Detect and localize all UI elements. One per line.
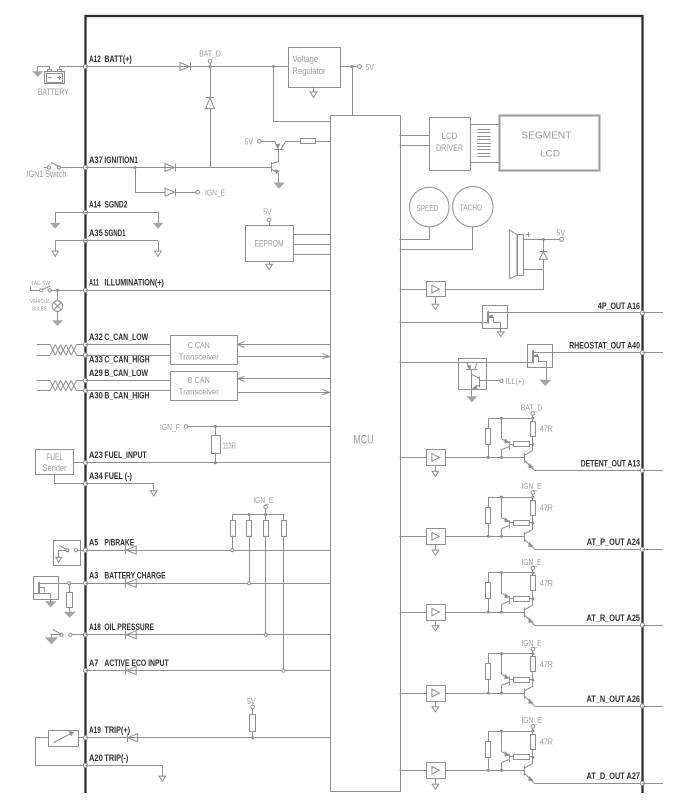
svg-text:A37: A37: [89, 155, 103, 165]
resistor R3 pull-up: [232, 515, 234, 521]
svg-text:A29: A29: [89, 368, 103, 378]
resistor (bias AT_N_OUT A26): [488, 654, 490, 664]
svg-text:IGN_E: IGN_E: [205, 189, 225, 198]
wire MCU to 4P FET: [400, 322, 483, 324]
speaker SP1: [510, 230, 517, 279]
ground (oil sw): [46, 638, 57, 644]
wire A33 to C CAN: [86, 355, 171, 357]
MOSFET Q4 (RHEOSTAT): [528, 345, 553, 368]
wire A20 to ground: [86, 766, 163, 777]
wire SGND2: [55, 212, 158, 214]
node IGN_E: [196, 190, 200, 194]
wire speaker+ to 5V: [523, 239, 560, 241]
pin A7 ACTIVE ECO INPUT: [83, 668, 87, 672]
wire 5V to EEPROM: [269, 222, 271, 225]
svg-text:A5: A5: [89, 538, 98, 548]
svg-text:BULBS: BULBS: [32, 306, 47, 312]
wire 4P_OUT: [507, 312, 643, 314]
svg-text:ILL(+): ILL(+): [505, 377, 524, 386]
junction rail 1: [248, 513, 251, 516]
svg-text:AT_N_OUT A26: AT_N_OUT A26: [587, 694, 641, 704]
junction A12/VR drop: [272, 65, 275, 68]
svg-text:A19: A19: [89, 725, 101, 735]
wire EEPROM bus 3: [293, 254, 330, 256]
wire alternator to pin: [58, 583, 86, 585]
resistor 47R (AT_P_OUT A24): [532, 497, 534, 500]
svg-text:RHEOSTAT_OUT A40: RHEOSTAT_OUT A40: [569, 341, 640, 351]
svg-text:ILLUMINATION(+): ILLUMINATION(+): [104, 278, 163, 288]
diode D2 BAT_D vertical: [210, 67, 212, 98]
wire A19 to MCU: [86, 737, 331, 739]
resistor (collector AT_D_OUT A27): [510, 756, 514, 758]
diode D9 trip: [128, 734, 138, 742]
pin A18 OIL PRESSURE: [83, 633, 87, 637]
svg-text:AT_D_OUT A27: AT_D_OUT A27: [587, 771, 641, 781]
wire EEPROM bus 1: [293, 234, 330, 236]
ground (Q4): [546, 368, 548, 381]
svg-text:IGN1 Switch: IGN1 Switch: [27, 169, 67, 179]
resistor (collector AT_P_OUT A24): [510, 522, 514, 524]
junction A3/resistor: [68, 582, 71, 585]
wire AT_P_OUT A24: [535, 549, 643, 551]
battery B1: [45, 72, 65, 84]
wire supply rail (AT_R_OUT A25): [488, 572, 533, 574]
transistor NPN (AT_P_OUT A24): [524, 532, 526, 542]
wire AT_N_OUT A26: [535, 706, 643, 708]
wire C CAN TX (arrow into MCU): [237, 356, 330, 358]
svg-text:IGNITION1: IGNITION1: [104, 155, 138, 165]
junction A3/R4: [248, 582, 251, 585]
diode D4 IGN_E: [165, 188, 175, 196]
wire speed to MCU: [400, 227, 430, 240]
wire 5V to MCU top: [352, 67, 354, 116]
transistor Q1 (PNP): [275, 141, 279, 148]
FUEL sender: [36, 450, 74, 475]
svg-text:BAT_D: BAT_D: [199, 50, 221, 59]
ground (Q3): [500, 328, 502, 332]
B CAN transceiver U5: [171, 372, 238, 401]
wire A29 to B CAN: [86, 380, 171, 382]
junction A19/R8: [251, 736, 254, 739]
twisted pair (C CAN): [50, 345, 55, 356]
resistor (bias DETENT_OUT A13): [488, 418, 490, 428]
svg-text:A7: A7: [89, 658, 98, 668]
wire AT_D_OUT A27: [535, 783, 643, 785]
svg-text:IGN_E: IGN_E: [253, 496, 273, 505]
transistor PNP (DETENT_OUT A13): [501, 418, 503, 439]
junction speaker diode: [542, 238, 545, 241]
wire switch to pin: [61, 167, 86, 169]
wire supply rail (AT_D_OUT A27): [488, 731, 533, 733]
junction A18/R5: [264, 633, 267, 636]
wire speaker- loop: [524, 269, 544, 271]
diode D6 battery charge: [126, 579, 136, 587]
ground (voltage regulator): [313, 87, 315, 93]
transistor PNP (AT_P_OUT A24): [501, 497, 503, 518]
ground (buffer AT_D_OUT A27): [435, 778, 437, 784]
wire A7 to MCU: [86, 670, 331, 672]
pin A32 C_CAN_LOW: [83, 343, 87, 347]
svg-text:B_CAN_HIGH: B_CAN_HIGH: [104, 390, 149, 400]
transistor pair (ILL driver): [459, 359, 487, 390]
wire MCU to buffer (DETENT_OUT A13): [400, 457, 427, 459]
wire supply rail (AT_N_OUT A26): [488, 653, 533, 655]
resistor R6 pull-up: [283, 515, 285, 521]
ground (R7): [65, 612, 74, 617]
svg-text:A35: A35: [89, 228, 103, 238]
svg-text:Transceiver: Transceiver: [179, 387, 219, 397]
svg-text:A14: A14: [89, 200, 101, 210]
buffer (AT_N_OUT A26): [427, 686, 446, 702]
buffer U7 (buzzer): [427, 282, 446, 297]
svg-text:BAT_D: BAT_D: [521, 403, 543, 412]
svg-text:TRIP(+): TRIP(+): [104, 725, 130, 735]
ground (Q2 emitter): [275, 183, 284, 188]
wire buffer to base (DETENT_OUT A13): [445, 457, 524, 459]
svg-text:IGN_E: IGN_E: [521, 716, 541, 725]
svg-text:Regulator: Regulator: [293, 66, 326, 76]
wire buffer to base (AT_N_OUT A26): [445, 693, 524, 695]
pin A5 P/BRAKE: [83, 548, 87, 552]
wire tacho to MCU: [400, 227, 473, 250]
resistor 47R (AT_D_OUT A27): [532, 731, 534, 734]
transistor NPN (AT_N_OUT A26): [524, 689, 526, 699]
wire resistor to MCU: [316, 141, 330, 143]
svg-text:5V: 5V: [263, 207, 272, 216]
wire A11 to MCU: [86, 290, 331, 292]
ground (buffer DETENT_OUT A13): [435, 465, 437, 471]
twisted pair (B CAN): [50, 381, 55, 391]
C CAN transceiver U4: [171, 336, 238, 365]
svg-text:VEHICLE: VEHICLE: [30, 299, 49, 305]
wire IGN_E stem: [265, 509, 267, 515]
svg-text:47R: 47R: [540, 737, 553, 746]
svg-text:TACHO: TACHO: [460, 203, 482, 212]
wire MCU to LCD driver 1: [400, 135, 430, 137]
svg-text:Sender: Sender: [43, 463, 67, 473]
pin A30 B_CAN_HIGH: [83, 389, 87, 393]
wire oil sw to pin: [72, 634, 86, 636]
ground (SGND2 left): [55, 212, 57, 223]
wire buffer to base (AT_R_OUT A25): [445, 612, 524, 614]
ground (SGND1 left): [55, 241, 57, 252]
svg-text:47R: 47R: [540, 660, 553, 669]
wire A12 line: [86, 66, 289, 68]
svg-text:IGN_F: IGN_F: [160, 423, 180, 432]
wire A37 line: [86, 167, 272, 169]
svg-text:A11: A11: [89, 278, 99, 288]
svg-text:IGN_E: IGN_E: [521, 639, 541, 648]
wire battery to A12: [38, 67, 50, 70]
pin A23 FUEL_INPUT: [83, 461, 87, 465]
wire B CAN TX (arrow into MCU): [237, 392, 330, 394]
svg-text:47R: 47R: [540, 425, 553, 434]
svg-text:A20: A20: [89, 753, 103, 763]
node ILL(+): [500, 379, 503, 382]
wire MCU to LCD driver 2: [400, 145, 430, 147]
svg-text:FUEL: FUEL: [46, 452, 63, 462]
svg-text:AT_P_OUT A24: AT_P_OUT A24: [587, 537, 640, 547]
IGN1 switch SW1: [44, 167, 47, 169]
ground (A20): [159, 776, 165, 781]
svg-text:AT_R_OUT A25: AT_R_OUT A25: [587, 613, 641, 623]
svg-text:IGN_E: IGN_E: [521, 558, 541, 567]
wire VR to 5V: [340, 66, 358, 68]
segment LCD display: [500, 116, 600, 171]
voltage regulator U2: [289, 48, 341, 88]
oil pressure switch SW4: [51, 634, 61, 636]
svg-text:47R: 47R: [540, 503, 553, 512]
ground (battery): [37, 67, 39, 72]
LCD driver U6: [430, 118, 471, 171]
resistor 47R (AT_N_OUT A26): [532, 654, 534, 657]
resistor (bias AT_R_OUT A25): [488, 573, 490, 583]
diode D10 (flyback): [543, 239, 545, 251]
svg-text:A3: A3: [89, 571, 98, 581]
resistor (collector DETENT_OUT A13): [510, 444, 514, 446]
ground (SGND1 right): [158, 241, 160, 252]
wire 5V to Q1: [261, 141, 275, 143]
transistor NPN (AT_D_OUT A27): [524, 766, 526, 776]
pin A34 FUEL (-): [83, 482, 87, 486]
transistor PNP (AT_N_OUT A26): [501, 654, 503, 675]
svg-text:A33: A33: [89, 355, 103, 365]
EEPROM U3: [246, 226, 294, 262]
wire A23 to MCU: [86, 462, 331, 464]
diode D7 oil pressure: [126, 631, 136, 639]
wire Q1 to resistor: [286, 141, 301, 143]
wire MCU to buffer (AT_P_OUT A24): [400, 536, 427, 538]
svg-text:SPEED: SPEED: [417, 204, 439, 213]
resistor 47R (DETENT_OUT A13): [532, 418, 534, 421]
resistor 47R (AT_R_OUT A25): [532, 573, 534, 576]
svg-text:5V: 5V: [366, 63, 375, 72]
wire A34 to ground: [86, 484, 154, 491]
wire B CAN RX (arrow into box): [237, 378, 330, 380]
svg-text:DRIVER: DRIVER: [436, 143, 463, 153]
svg-text:C CAN: C CAN: [188, 340, 210, 350]
ground (ILL driver): [471, 389, 473, 396]
resistor (bias AT_D_OUT A27): [488, 731, 490, 741]
resistor (collector AT_R_OUT A25): [510, 598, 514, 600]
LCD bus: [470, 124, 499, 126]
wire EEPROM bus 2: [293, 244, 330, 246]
ground (buzzer buffer): [435, 296, 437, 304]
tachometer gauge: [453, 187, 493, 227]
ground (bulb): [57, 311, 59, 320]
resistor R2 113R: [215, 427, 217, 436]
svg-text:LCD: LCD: [442, 131, 458, 141]
trip switch (reset): [49, 731, 79, 747]
wire IGN_E branch: [136, 168, 166, 193]
svg-text:C_CAN_LOW: C_CAN_LOW: [104, 332, 148, 342]
wire border connector frame (cluster boundary): [86, 16, 643, 793]
buffer (AT_P_OUT A24): [427, 529, 446, 545]
transistor NPN (AT_R_OUT A25): [524, 608, 526, 618]
parking brake switch SW3: [54, 541, 81, 566]
svg-text:Voltage: Voltage: [293, 54, 319, 64]
wire supply rail (DETENT_OUT A13): [488, 418, 533, 420]
node 5V (speaker): [560, 238, 564, 242]
diode D8 active eco: [126, 666, 136, 674]
junction A7/R6: [282, 669, 285, 672]
wire MCU to ILL driver: [400, 362, 459, 364]
pin A11 ILLUMINATION(+): [83, 288, 87, 292]
pin A14 SGND2: [83, 210, 87, 214]
pin A29 B_CAN_LOW: [83, 378, 87, 382]
junction 113R: [214, 425, 217, 428]
buffer (AT_D_OUT A27): [427, 763, 446, 779]
transistor NPN (DETENT_OUT A13): [524, 453, 526, 463]
ground (SGND2 right): [158, 212, 160, 223]
buffer (DETENT_OUT A13): [427, 450, 446, 466]
svg-text:BATT(+): BATT(+): [104, 54, 131, 64]
svg-text:C_CAN_HIGH: C_CAN_HIGH: [104, 355, 149, 365]
svg-text:SGND2: SGND2: [104, 200, 127, 210]
svg-text:A23: A23: [89, 450, 103, 460]
node BAT_D: [209, 65, 212, 68]
diode D1 on A12 line: [180, 63, 190, 71]
junction IGN branch: [134, 166, 137, 169]
wire C CAN RX (arrow into box): [237, 344, 330, 346]
wire A18 to MCU: [86, 634, 331, 636]
wire SGND1: [55, 240, 158, 242]
wire MCU to buffer (AT_N_OUT A26): [400, 693, 427, 695]
diode D3 ignition: [165, 164, 175, 172]
svg-text:A32: A32: [89, 332, 103, 342]
wire MCU to buffer (AT_R_OUT A25): [400, 612, 427, 614]
pin A35 SGND1: [83, 239, 87, 243]
wire pull-up rail: [232, 514, 284, 516]
MOSFET Q3 (4P_OUT): [483, 306, 508, 329]
ground (A34): [151, 491, 157, 496]
svg-text:SEGMENT: SEGMENT: [521, 130, 572, 142]
wire RHEOSTAT_OUT: [552, 352, 643, 354]
ground (EEPROM): [269, 261, 271, 264]
transistor PNP (AT_D_OUT A27): [501, 731, 503, 752]
wire sender to pin: [74, 462, 86, 464]
transistor Q2 (NPN): [271, 162, 273, 172]
pin A37 IGNITION1: [83, 165, 87, 169]
wire AT_R_OUT A25: [535, 625, 643, 627]
speedometer gauge: [410, 187, 450, 227]
ground (buffer AT_P_OUT A24): [435, 544, 437, 550]
transistor PNP (AT_R_OUT A25): [501, 573, 503, 594]
ground (buffer AT_N_OUT A26): [435, 701, 437, 707]
svg-text:DETENT_OUT A13: DETENT_OUT A13: [581, 458, 640, 468]
svg-text:MCU: MCU: [353, 435, 373, 447]
resistor R7 (charge): [69, 583, 71, 592]
svg-text:A18: A18: [89, 622, 101, 632]
wire A32 to C CAN: [86, 344, 171, 346]
wire ILL driver to Q4 gate: [487, 362, 528, 364]
svg-text:5V: 5V: [557, 228, 566, 237]
svg-text:EEPROM: EEPROM: [255, 238, 284, 248]
svg-text:A34: A34: [89, 471, 103, 481]
svg-text:TAIL SW: TAIL SW: [31, 281, 50, 287]
svg-text:5V: 5V: [245, 137, 254, 146]
svg-text:FUEL (-): FUEL (-): [104, 471, 132, 481]
pin A3 BATTERY CHARGE: [83, 581, 87, 585]
junction bulb: [56, 289, 59, 292]
svg-text:A30: A30: [89, 390, 103, 400]
junction 113R/A23: [214, 461, 217, 464]
pin A19 TRIP(+): [83, 736, 87, 740]
wire drop to MCU left: [274, 67, 331, 122]
svg-text:4P_OUT A16: 4P_OUT A16: [598, 301, 640, 311]
svg-text:P/BRAKE: P/BRAKE: [104, 538, 134, 548]
wire supply rail (AT_P_OUT A24): [488, 497, 533, 499]
pin A12 BATT(+): [83, 64, 87, 68]
wire IGN_F to MCU: [188, 426, 330, 428]
svg-text:OIL PRESSURE: OIL PRESSURE: [104, 622, 154, 632]
svg-text:BATTERY: BATTERY: [38, 87, 69, 97]
diode D5 P/BRAKE: [126, 546, 136, 554]
pin A20 TRIP(-): [83, 763, 87, 767]
wire sender gnd to A34: [55, 475, 86, 484]
svg-text:5V: 5V: [247, 697, 256, 706]
wire DETENT_OUT A13: [535, 470, 643, 472]
resistor (bias AT_P_OUT A24): [488, 497, 490, 507]
wire TAIL to pin: [51, 290, 85, 292]
svg-text:LCD: LCD: [540, 149, 561, 159]
svg-text:ACTIVE ECO INPUT: ACTIVE ECO INPUT: [104, 658, 169, 668]
ground (buffer AT_R_OUT A25): [435, 620, 437, 626]
MCU U1 box: [331, 116, 401, 792]
buffer (AT_R_OUT A25): [427, 605, 446, 621]
wire A3 to MCU: [86, 583, 331, 585]
TAIL SW switch SW2: [30, 287, 32, 291]
svg-text:B CAN: B CAN: [188, 375, 210, 385]
svg-text:IGN_E: IGN_E: [521, 482, 541, 491]
pin A33 C_CAN_HIGH: [83, 353, 87, 357]
resistor R5 pull-up: [265, 515, 267, 521]
svg-text:SGND1: SGND1: [104, 228, 125, 238]
svg-text:FUEL_INPUT: FUEL_INPUT: [104, 450, 147, 460]
resistor (collector AT_N_OUT A26): [510, 679, 514, 681]
resistor R8 (trip pull-up): [252, 709, 254, 715]
svg-text:A12: A12: [89, 54, 101, 64]
svg-text:B_CAN_LOW: B_CAN_LOW: [104, 368, 148, 378]
wire Q1 collector to Q2: [278, 149, 280, 161]
node 5V main: [351, 65, 354, 68]
svg-text:113R: 113R: [223, 442, 237, 451]
wire A30 to B CAN: [86, 390, 171, 392]
wire MCU to buffer (AT_D_OUT A27): [400, 770, 427, 772]
junction rail 2: [264, 513, 267, 516]
resistor R1 (base): [301, 139, 316, 144]
svg-text:47R: 47R: [540, 579, 553, 588]
wire MCU to buzzer buffer: [400, 289, 427, 291]
wire buffer to base (AT_P_OUT A24): [445, 536, 524, 538]
wire buffer to base (AT_D_OUT A27): [445, 770, 524, 772]
ground (alternator): [50, 599, 52, 602]
vehicle bulb L1: [57, 290, 59, 301]
alternator module: [34, 577, 59, 600]
svg-text:Transceiver: Transceiver: [179, 351, 219, 361]
resistor R4 pull-up: [249, 515, 251, 521]
svg-text:TRIP(-): TRIP(-): [104, 753, 128, 763]
wire trip to pin: [78, 737, 85, 739]
wire A5 to MCU: [86, 550, 331, 552]
junction A5/R3: [231, 549, 234, 552]
